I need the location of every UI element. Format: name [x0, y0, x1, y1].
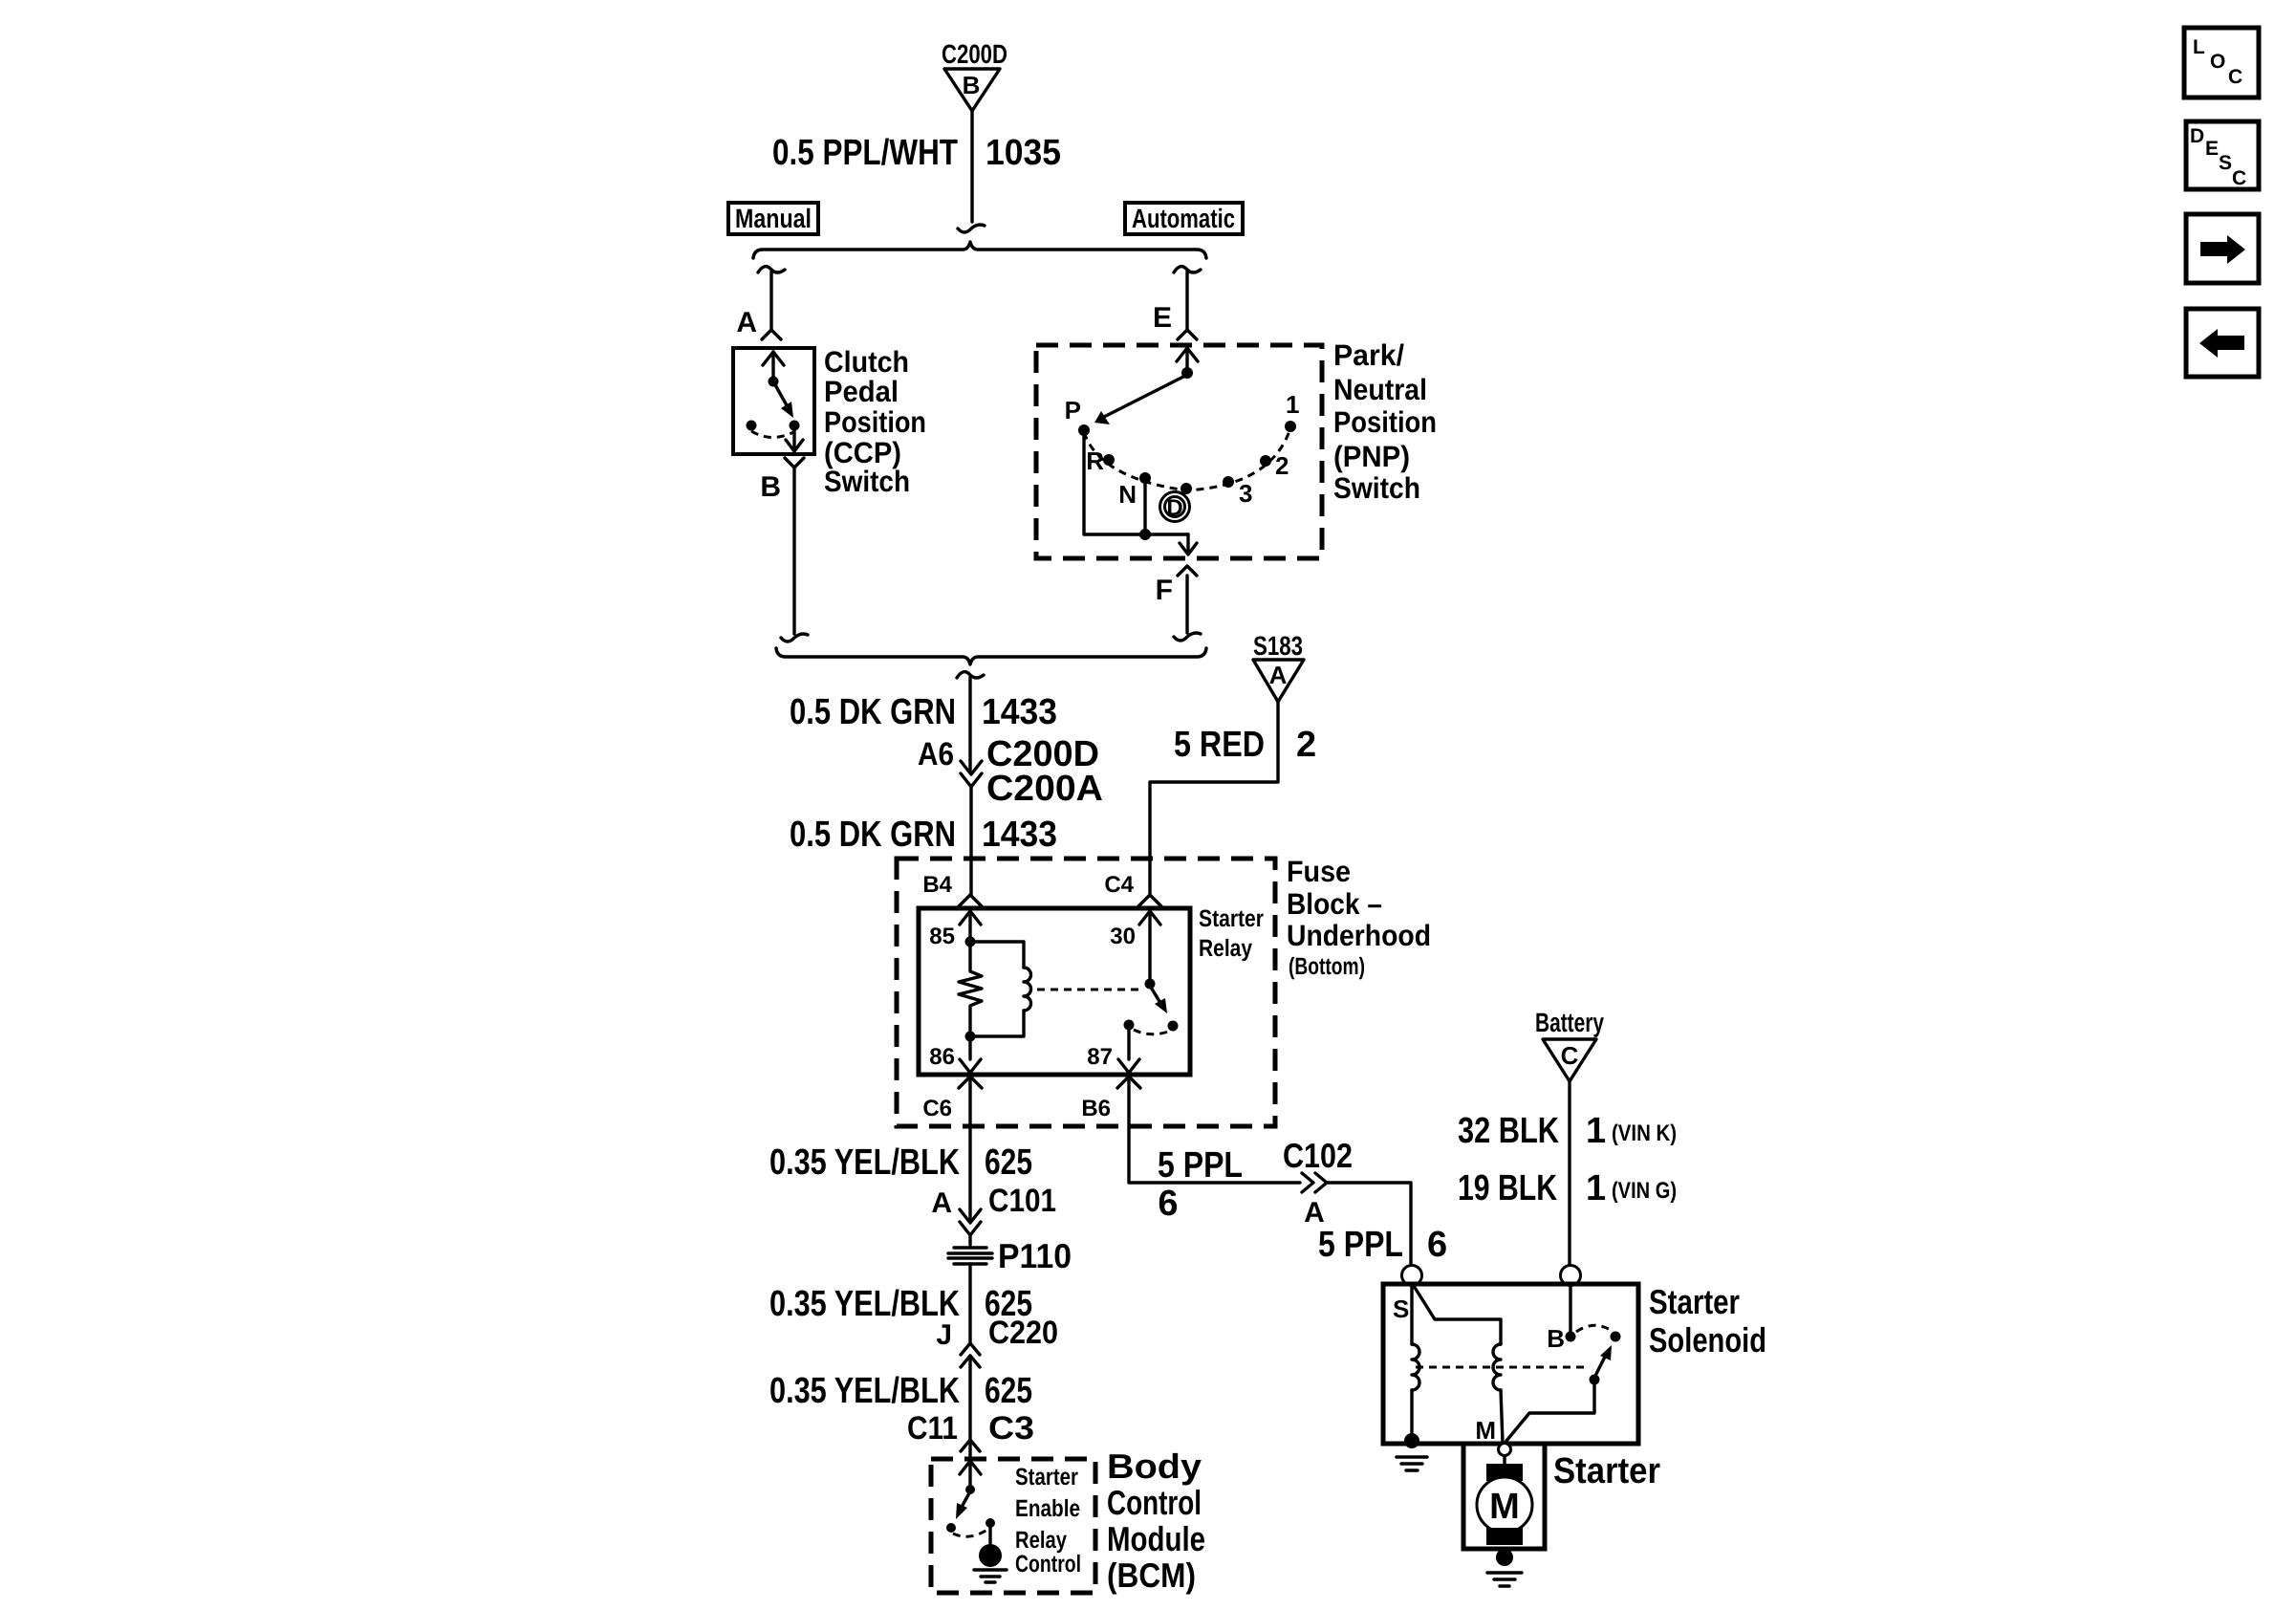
- clutch pedal position switch box: [733, 348, 814, 454]
- wire label 5 PPL 6 second: [1318, 1225, 1447, 1265]
- starter label: [1553, 1451, 1660, 1491]
- PNP contact 3: [1223, 476, 1252, 508]
- PNP contact R: [1086, 446, 1115, 475]
- connector names C200D C200A: [986, 734, 1103, 809]
- wire C102 to solenoid S: [1327, 1183, 1411, 1267]
- wire B6 to C102: [1129, 1077, 1300, 1183]
- starter solenoid label: [1649, 1282, 1766, 1360]
- PNP wiper arm: [1094, 348, 1198, 424]
- svg-text:625: 625: [985, 1142, 1032, 1183]
- svg-text:Automatic: Automatic: [1132, 204, 1235, 233]
- svg-text:Switch: Switch: [824, 465, 910, 498]
- connector C102: [1283, 1136, 1353, 1229]
- svg-text:Neutral: Neutral: [1333, 373, 1427, 406]
- solenoid ground: [1397, 1433, 1427, 1470]
- solenoid terminal B contact: [1547, 1284, 1575, 1353]
- svg-text:0.5 PPL/WHT: 0.5 PPL/WHT: [772, 133, 958, 173]
- svg-text:0.35 YEL/BLK: 0.35 YEL/BLK: [769, 1371, 960, 1411]
- relay pin 86: [929, 1032, 981, 1074]
- svg-text:C220: C220: [988, 1315, 1058, 1351]
- svg-text:C102: C102: [1283, 1136, 1353, 1175]
- svg-text:Switch: Switch: [1333, 471, 1420, 505]
- svg-text:A: A: [1269, 661, 1288, 689]
- terminal M circle: [1499, 1444, 1511, 1456]
- PNP internal wiring: [1084, 436, 1197, 555]
- PNP contact P: [1065, 396, 1090, 436]
- svg-text:C11: C11: [907, 1410, 958, 1447]
- svg-text:D: D: [1166, 495, 1182, 521]
- solenoid terminal S circle: [1402, 1266, 1422, 1286]
- svg-text:1035: 1035: [986, 133, 1061, 173]
- svg-text:B: B: [1547, 1324, 1565, 1353]
- svg-text:5 PPL: 5 PPL: [1158, 1145, 1243, 1186]
- split brace: [753, 242, 1206, 258]
- wire label 0.35 YEL/BLK 625: [769, 1142, 1032, 1183]
- svg-text:Starter: Starter: [1553, 1451, 1660, 1491]
- Manual label box: [728, 203, 818, 234]
- svg-text:6: 6: [1427, 1225, 1447, 1265]
- BCM internal ground: [974, 1523, 1007, 1582]
- pin label A: [736, 307, 757, 338]
- battery triangle C: [1543, 1039, 1596, 1081]
- svg-text:C: C: [2228, 66, 2242, 88]
- fuse block label: [1287, 855, 1431, 980]
- pin label B: [760, 471, 781, 503]
- svg-text:1: 1: [1586, 1111, 1606, 1151]
- svg-text:A: A: [931, 1187, 952, 1219]
- relay pin 85: [929, 911, 981, 949]
- svg-text:A6: A6: [918, 736, 954, 772]
- svg-text:Position: Position: [824, 405, 926, 439]
- svg-text:1: 1: [1586, 1168, 1606, 1208]
- inline connector C3: [961, 1440, 980, 1459]
- connector C200D triangle B: [944, 69, 1000, 111]
- solenoid terminal B circle: [1561, 1266, 1581, 1286]
- PNP switch label: [1333, 338, 1437, 505]
- battery label: [1535, 1008, 1604, 1037]
- fuse block underhood dashed box: [897, 859, 1275, 1126]
- wire label 5 RED 2: [1174, 725, 1316, 765]
- svg-text:S: S: [2219, 152, 2232, 174]
- svg-text:B6: B6: [1081, 1096, 1111, 1121]
- svg-text:S183: S183: [1253, 631, 1303, 661]
- connector C101 pin A: [931, 1187, 952, 1219]
- PNP contact N: [1118, 472, 1151, 509]
- solenoid hold-in winding: [1412, 1284, 1419, 1436]
- svg-text:5 RED: 5 RED: [1174, 725, 1265, 765]
- svg-text:Block –: Block –: [1287, 887, 1382, 921]
- splice S183 triangle A: [1253, 660, 1304, 702]
- wire label 19 BLK 1 VIN G: [1458, 1168, 1677, 1208]
- svg-text:A: A: [736, 307, 757, 338]
- BCM starter enable relay contacts: [946, 1461, 995, 1536]
- svg-text:0.5 DK GRN: 0.5 DK GRN: [790, 815, 956, 855]
- svg-text:Relay: Relay: [1199, 935, 1252, 962]
- wire to CCP pin A: [758, 267, 785, 339]
- PNP contact D: [1160, 483, 1193, 522]
- pin C6: [922, 1077, 982, 1121]
- svg-text:2: 2: [1275, 451, 1289, 480]
- starter enclosure: [1463, 1444, 1545, 1549]
- pin A6 label: [918, 736, 954, 772]
- svg-text:Pedal: Pedal: [824, 375, 899, 408]
- merge brace: [776, 648, 1206, 664]
- svg-text:B4: B4: [922, 872, 952, 898]
- solenoid switch contact dot: [1576, 1325, 1621, 1341]
- PNP contact 1: [1285, 390, 1299, 432]
- svg-text:Body: Body: [1107, 1447, 1202, 1486]
- svg-text:E: E: [1153, 302, 1172, 334]
- wire label 32 BLK 1 VIN K: [1458, 1111, 1677, 1151]
- wire P110 down: [968, 1264, 971, 1342]
- starter solenoid box: [1383, 1284, 1638, 1444]
- svg-text:E: E: [2205, 138, 2219, 160]
- wire label 0.35 YEL/BLK 625 third: [769, 1371, 1032, 1411]
- PNP contact 2: [1260, 451, 1289, 480]
- wire below merge: [957, 672, 984, 772]
- solenoid label S: [1393, 1295, 1409, 1323]
- svg-text:Park/: Park/: [1333, 338, 1404, 372]
- wire from S183 to fuse block C4: [1150, 702, 1278, 895]
- pin label E: [1153, 302, 1172, 334]
- grommet P110: [948, 1236, 1072, 1275]
- svg-text:6: 6: [1158, 1184, 1178, 1224]
- starter enable relay control label: [1015, 1464, 1081, 1577]
- solenoid switch arm: [1506, 1345, 1612, 1441]
- battery wire down: [1568, 1081, 1570, 1267]
- wire label 0.5 PPL/WHT: [772, 133, 958, 173]
- CCP switch contacts: [747, 352, 804, 451]
- body control module dashed box: [931, 1459, 1095, 1593]
- wire label 0.5 DK GRN 1433 second: [790, 815, 956, 855]
- svg-text:(BCM): (BCM): [1107, 1556, 1196, 1595]
- svg-text:Starter: Starter: [1015, 1464, 1078, 1490]
- svg-text:D: D: [2190, 125, 2204, 147]
- svg-text:1: 1: [1286, 390, 1299, 419]
- CCP switch label: [824, 345, 926, 498]
- svg-text:87: 87: [1087, 1044, 1113, 1070]
- svg-text:625: 625: [985, 1371, 1032, 1411]
- svg-text:Clutch: Clutch: [824, 345, 909, 379]
- back arrow icon box: [2186, 309, 2259, 377]
- svg-text:85: 85: [929, 924, 955, 949]
- svg-text:O: O: [2210, 51, 2225, 73]
- connector C3 pin C11: [907, 1410, 1034, 1447]
- svg-text:P: P: [1065, 396, 1081, 424]
- svg-text:F: F: [1156, 575, 1173, 606]
- svg-text:Relay: Relay: [1015, 1527, 1067, 1554]
- svg-text:B: B: [760, 471, 781, 503]
- starter ground: [1487, 1549, 1522, 1586]
- relay coil resistor: [959, 937, 982, 1037]
- inline connector C220: [961, 1343, 980, 1439]
- svg-text:J: J: [936, 1319, 952, 1351]
- svg-text:Control: Control: [1107, 1483, 1202, 1522]
- svg-text:C200D: C200D: [942, 39, 1007, 69]
- svg-text:19 BLK: 19 BLK: [1458, 1168, 1557, 1208]
- svg-text:Fuse: Fuse: [1287, 855, 1351, 888]
- Automatic label box: [1125, 203, 1243, 234]
- svg-text:C101: C101: [988, 1183, 1056, 1219]
- svg-text:C4: C4: [1104, 872, 1134, 898]
- svg-text:1433: 1433: [982, 815, 1057, 855]
- svg-text:Position: Position: [1333, 405, 1437, 439]
- wire from CCP pin B down: [781, 458, 808, 642]
- wire label 0.5 DK GRN 1433: [790, 692, 956, 732]
- relay pin 30: [1110, 911, 1160, 984]
- inline connector C200D/C200A: [961, 761, 982, 895]
- svg-text:Starter: Starter: [1199, 905, 1264, 932]
- svg-text:0.5 DK GRN: 0.5 DK GRN: [790, 692, 956, 732]
- wire from C200D down: [958, 111, 985, 232]
- solenoid pull-in winding: [1414, 1286, 1503, 1443]
- LOC icon box: [2184, 28, 2259, 98]
- svg-text:Solenoid: Solenoid: [1649, 1320, 1766, 1360]
- relay switch arm: [1145, 979, 1179, 1032]
- svg-text:(Bottom): (Bottom): [1289, 953, 1365, 980]
- svg-text:R: R: [1086, 446, 1104, 475]
- wire from PNP pin F down: [1174, 566, 1201, 641]
- svg-text:(VIN K): (VIN K): [1612, 1120, 1677, 1146]
- svg-text:Module: Module: [1107, 1519, 1205, 1558]
- svg-text:C200A: C200A: [986, 769, 1103, 809]
- PNP contact arc dashed: [1084, 428, 1290, 490]
- starter relay label: [1199, 905, 1264, 962]
- svg-text:Enable: Enable: [1015, 1495, 1080, 1522]
- svg-text:P110: P110: [998, 1236, 1072, 1275]
- starter relay box: [919, 908, 1190, 1075]
- wire label 0.35 YEL/BLK 625 second: [769, 1284, 1032, 1324]
- solenoid label M: [1475, 1416, 1496, 1445]
- svg-text:5 PPL: 5 PPL: [1318, 1225, 1403, 1265]
- svg-text:1433: 1433: [982, 692, 1057, 732]
- pin B4: [922, 872, 982, 906]
- pin B6: [1081, 1077, 1140, 1121]
- relay pin 87: [1087, 1020, 1171, 1074]
- svg-text:30: 30: [1110, 924, 1136, 949]
- svg-text:0.35 YEL/BLK: 0.35 YEL/BLK: [769, 1142, 960, 1183]
- svg-text:Control: Control: [1015, 1551, 1081, 1577]
- wire to PNP pin E: [1174, 267, 1201, 339]
- starter motor: [1477, 1456, 1532, 1545]
- splice S183 label: [1253, 631, 1303, 661]
- svg-text:Manual: Manual: [735, 204, 812, 233]
- park/neutral position switch dashed box: [1036, 345, 1322, 558]
- inline connector C101: [960, 1209, 981, 1245]
- svg-text:B: B: [963, 71, 981, 99]
- svg-text:C: C: [2232, 167, 2246, 189]
- svg-text:3: 3: [1239, 479, 1252, 508]
- svg-text:0.35 YEL/BLK: 0.35 YEL/BLK: [769, 1284, 960, 1324]
- next arrow icon box: [2186, 214, 2259, 283]
- svg-text:86: 86: [929, 1044, 955, 1070]
- DESC icon box: [2186, 121, 2259, 189]
- svg-text:C6: C6: [922, 1096, 952, 1121]
- svg-text:L: L: [2193, 36, 2205, 58]
- connector C200D label: [942, 39, 1007, 69]
- relay coil winding: [970, 942, 1031, 1036]
- svg-text:C3: C3: [988, 1410, 1034, 1447]
- wire circuit number 1035: [986, 133, 1061, 173]
- svg-text:S: S: [1393, 1295, 1409, 1323]
- connector C220 pin J: [936, 1315, 1058, 1351]
- svg-text:N: N: [1118, 480, 1137, 509]
- svg-text:C: C: [1561, 1041, 1579, 1070]
- pin label F: [1156, 575, 1173, 606]
- wire label 5 PPL 6: [1158, 1145, 1243, 1224]
- svg-text:(VIN G): (VIN G): [1612, 1178, 1677, 1204]
- pin C4: [1104, 872, 1161, 906]
- svg-text:2: 2: [1296, 725, 1316, 765]
- relay actuation dashed line: [1037, 989, 1142, 991]
- svg-text:Underhood: Underhood: [1287, 919, 1431, 952]
- svg-text:Battery: Battery: [1535, 1008, 1604, 1037]
- svg-text:Starter: Starter: [1649, 1282, 1740, 1321]
- svg-text:M: M: [1489, 1487, 1520, 1527]
- wire C6 down: [968, 1077, 971, 1221]
- svg-text:32 BLK: 32 BLK: [1458, 1111, 1559, 1151]
- svg-text:M: M: [1475, 1416, 1496, 1445]
- BCM label: [1107, 1447, 1205, 1595]
- solenoid actuation dashed line: [1416, 1366, 1587, 1369]
- svg-text:(PNP): (PNP): [1333, 440, 1410, 473]
